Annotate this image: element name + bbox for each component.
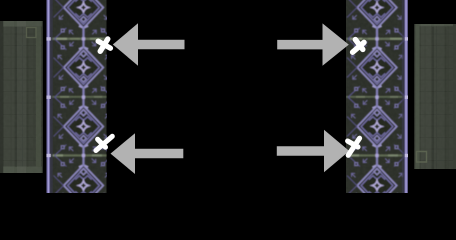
bright seam blobs on border: [47, 37, 51, 40]
arrow top-right: [277, 23, 349, 65]
marker top-right (white X): [353, 40, 364, 53]
right column: [346, 0, 409, 215]
vertical banding: [421, 24, 431, 169]
right wall: [414, 24, 456, 169]
bright seam blobs on border: [405, 37, 409, 40]
seams: [49, 38, 107, 157]
arrow bottom-left: [111, 133, 184, 174]
border line right side: [404, 0, 408, 193]
left wall: [0, 21, 43, 173]
marker top-left (white X): [98, 39, 110, 51]
vertical banding: [4, 21, 14, 173]
motifs: [54, 0, 111, 37]
rivet square: [417, 152, 427, 163]
left column: [46, 0, 112, 215]
rivet square: [27, 28, 37, 38]
arrow bottom-right: [277, 130, 350, 172]
arrow top-left: [113, 23, 185, 65]
border line: [46, 0, 50, 193]
marker bottom-right (white cross): [348, 138, 360, 155]
marker bottom-left (white cross): [96, 136, 112, 150]
